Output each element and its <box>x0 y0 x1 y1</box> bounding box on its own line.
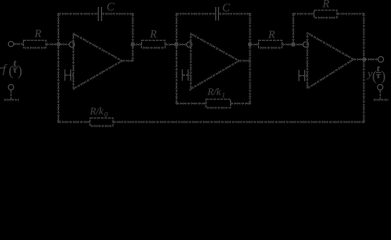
wire R3 to node E <box>282 44 303 46</box>
wire node D to R3 <box>250 44 259 46</box>
ground stem (input) <box>10 90 12 100</box>
op-amp U2 input circle <box>187 42 192 47</box>
wire C1 top left <box>58 13 98 15</box>
wire C2 top left <box>177 13 216 15</box>
U2 ground symbol <box>182 69 191 80</box>
op-amp U1 <box>73 34 122 89</box>
wire C2 top right <box>219 13 251 15</box>
label -f(t/tau) input <box>3 61 22 78</box>
op-amp U2 <box>191 34 239 89</box>
wire R4 right riser through node F to bottom loop <box>363 14 365 122</box>
wire U1 output to riser <box>122 60 133 62</box>
resistor R-k0 <box>90 118 113 126</box>
wire R1 to node A <box>46 43 69 45</box>
wire input to R1 <box>14 43 24 45</box>
node A <box>56 42 60 46</box>
corner junction dots <box>57 13 365 123</box>
wire: C1 left riser / feedback drop <box>57 14 59 122</box>
output terminal <box>378 57 384 63</box>
wire U2 output to riser <box>239 60 250 62</box>
wire U3 output <box>354 58 379 60</box>
wire R4 left riser <box>292 14 294 45</box>
wire: C2 left riser / R-k1 drop <box>176 14 178 104</box>
input terminal <box>8 41 13 46</box>
U3 ground symbol <box>299 70 307 81</box>
wire R4 top right <box>337 13 364 15</box>
wire bottom loop right <box>113 121 364 123</box>
ground terminal (output) <box>378 85 383 90</box>
node D <box>248 42 252 46</box>
label R-k1 <box>207 88 224 97</box>
U1 ground symbol <box>65 69 74 80</box>
resistor R3 <box>259 40 283 48</box>
node E <box>291 42 295 46</box>
label R (R2) <box>150 30 157 37</box>
ground bar (input) <box>4 99 19 101</box>
node F <box>362 57 366 61</box>
op-amp U3 input circle <box>303 42 308 47</box>
wire C1 right riser to U1 output <box>132 14 134 61</box>
resistor R-k1 <box>206 99 231 108</box>
wire R4 top left <box>293 13 314 15</box>
op-amp U3 <box>307 33 353 89</box>
capacitor C2 <box>216 7 219 21</box>
fraction bar (input label) <box>13 66 18 68</box>
label y(t/tau) output <box>367 66 385 83</box>
wire C1 top right <box>102 13 133 15</box>
op-amp U1 input circle <box>69 42 74 47</box>
label C (C1) <box>107 3 114 11</box>
minus sign (input label) <box>0 67 4 69</box>
ground bar (output) <box>374 99 389 101</box>
label R (R4) <box>323 0 330 7</box>
wire R-k1 loop bottom right <box>231 103 251 105</box>
resistor R4 <box>314 10 337 18</box>
label R-k0 <box>90 107 108 116</box>
wire C2 right riser through U2 output to R-k1 loop <box>249 14 251 104</box>
capacitor C1 <box>98 7 101 21</box>
fraction bar (output label) <box>376 72 381 74</box>
node B <box>131 42 135 46</box>
ground stem (output) <box>379 90 381 100</box>
resistor R2 <box>142 40 166 48</box>
wire node B to R2 <box>133 44 142 46</box>
node C <box>174 42 178 46</box>
resistor R1 <box>24 40 47 48</box>
wire R-k1 loop bottom left <box>177 103 207 105</box>
wire R2 to node C <box>165 44 187 46</box>
label R (R3) <box>268 31 275 38</box>
ground terminal (input) <box>8 85 13 90</box>
label C (C2) <box>223 4 230 12</box>
label R (R1) <box>35 30 42 37</box>
wire bottom loop left <box>58 121 90 123</box>
